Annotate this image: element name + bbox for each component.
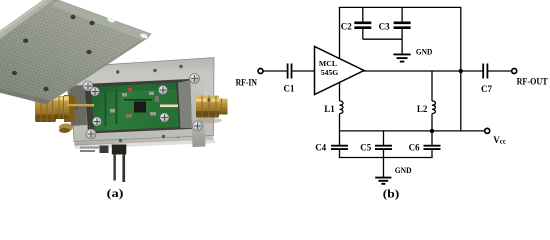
svg-text:C5: C5	[360, 143, 371, 153]
photo: module box front wall	[74, 131, 214, 145]
inductor L1	[324, 101, 343, 114]
wire C2 bottom to C3 branch	[363, 38, 402, 40]
photo: DC feedthrough pins	[80, 145, 126, 183]
photo: PCB corner screws	[90, 85, 169, 126]
wire bottom rail	[339, 157, 433, 159]
ground GND top	[393, 47, 432, 62]
node RF-IN terminal	[236, 69, 263, 88]
capacitor C6	[409, 131, 441, 158]
svg-text:RF-OUT: RF-OUT	[517, 77, 548, 87]
photo: right SMA connector	[191, 80, 228, 148]
photo: module box top rim	[70, 58, 214, 142]
photo: PCB traces and components	[74, 88, 178, 126]
node Vcc terminal	[485, 128, 507, 145]
svg-text:RF-IN: RF-IN	[236, 78, 258, 88]
svg-text:GND: GND	[395, 165, 412, 175]
wire L1 to LC rail	[339, 114, 341, 131]
photo: rim corner screws and holes	[75, 65, 211, 142]
wire amplifier output to C7	[363, 70, 483, 72]
wire RF-IN to C1	[263, 70, 287, 72]
svg-text:L2: L2	[417, 104, 428, 114]
svg-text:C2: C2	[341, 21, 352, 31]
svg-text:C3: C3	[379, 21, 390, 31]
photo: module lid	[0, 0, 151, 105]
wire amp bottom to L1	[339, 82, 341, 101]
svg-text:(a): (a)	[107, 188, 124, 200]
svg-text:GND: GND	[416, 47, 432, 57]
svg-text:(b): (b)	[383, 189, 400, 201]
inductor L2	[417, 71, 436, 131]
capacitor C2	[341, 7, 372, 39]
photo: amplifier module body shadow	[74, 139, 216, 149]
capacitor C3	[379, 7, 411, 53]
photo: left SMA connector	[35, 93, 93, 133]
capacitor C1	[284, 64, 295, 94]
photo: lid shadow on box left side	[67, 85, 87, 126]
wire amp top to top rail	[339, 7, 341, 58]
svg-text:545G: 545G	[321, 68, 339, 77]
photo: cavity shadow	[85, 79, 203, 134]
wire C5 to ground	[383, 158, 385, 178]
node junction output	[459, 69, 463, 73]
photo: green PCB	[91, 83, 179, 131]
capacitor C5	[360, 131, 392, 158]
svg-text:C6: C6	[409, 143, 420, 153]
node RF-OUT terminal	[512, 69, 548, 87]
wire top rail	[339, 6, 462, 8]
wire C7 to RF-OUT	[487, 70, 511, 72]
svg-text:C4: C4	[315, 142, 326, 152]
node junction L2 bottom	[430, 129, 434, 133]
svg-text:C1: C1	[284, 84, 295, 94]
caption (b)	[383, 189, 400, 201]
wire C1 to amplifier	[292, 70, 315, 72]
capacitor C7	[481, 64, 492, 94]
wire LC rail	[339, 130, 485, 132]
capacitor C4	[315, 131, 348, 158]
op-amp U1 MCL 545G	[315, 47, 365, 95]
wire right vertical top rail to Vcc rail	[460, 7, 462, 130]
ground GND bottom	[375, 165, 411, 184]
svg-text:L1: L1	[324, 104, 335, 114]
svg-text:MCL: MCL	[319, 59, 337, 68]
svg-text:C7: C7	[481, 84, 492, 94]
caption (a)	[107, 188, 124, 200]
